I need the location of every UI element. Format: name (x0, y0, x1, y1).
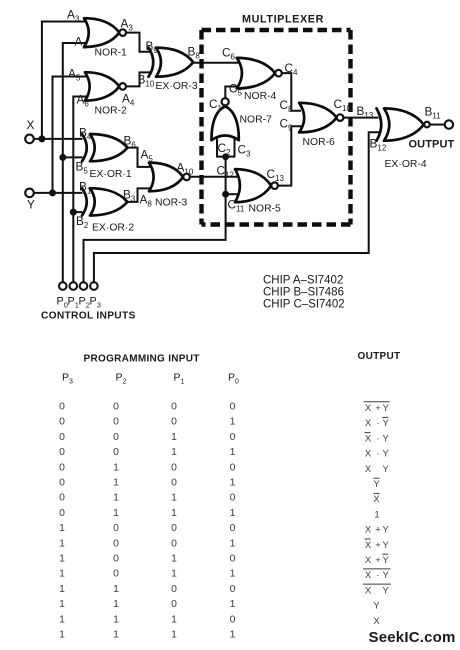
svg-text:P1: P1 (68, 296, 79, 310)
svg-text:OUTPUT: OUTPUT (358, 351, 401, 362)
svg-text:0 1 0 0: 0 1 0 0 (59, 462, 235, 473)
wire Y input line to EX-OR-2 B1 (34, 192, 83, 194)
svg-text:1 1 0 1: 1 1 0 1 (59, 599, 235, 610)
bubble NOR-3 output A10 (183, 174, 190, 181)
bubble NOR-5 output C13 (271, 182, 278, 189)
wire EX-OR-1 output B6 to NOR-3 input A5 (128, 148, 152, 167)
gate EX-OR-3 body (156, 48, 193, 77)
svg-text:C13: C13 (267, 167, 285, 183)
svg-text:1 0 1 0: 1 0 1 0 (59, 554, 235, 565)
wire X to NOR-1 input A3 (vertical riser and top run) (42, 22, 86, 139)
terminal P0 (59, 282, 67, 290)
svg-text:0 0 1 1: 0 0 1 1 (59, 447, 235, 458)
svg-text:1 0 0 1: 1 0 0 1 (59, 538, 235, 549)
svg-text:1 0 0 0: 1 0 0 0 (59, 523, 235, 534)
svg-text:0 0 0 1: 0 0 0 1 (59, 417, 235, 428)
svg-text:B13: B13 (357, 104, 374, 120)
svg-text:C2: C2 (218, 141, 232, 157)
svg-text:A5: A5 (68, 67, 81, 83)
wire EX-OR-4 output to terminal B11 (430, 124, 445, 126)
svg-text:B10: B10 (138, 73, 155, 89)
gate EX-OR-2 input arc (82, 188, 87, 215)
svg-text:X+Y: X+Y (365, 540, 390, 551)
svg-text:NOR-2: NOR-2 (95, 106, 128, 117)
svg-text:B3: B3 (123, 188, 136, 204)
svg-text:X: X (373, 494, 380, 505)
terminal X input (25, 135, 34, 144)
svg-text:CHIP A–SI7402: CHIP A–SI7402 (263, 275, 343, 287)
svg-text:EX·OR-4: EX·OR-4 (385, 159, 427, 170)
wire P3 run to EX-OR-4 input B12 (94, 132, 379, 282)
gate NOR-4 (237, 58, 275, 89)
svg-text:CONTROL INPUTS: CONTROL INPUTS (41, 311, 136, 322)
gate NOR-5 (235, 169, 271, 202)
wire NOR-6 output C10 to EX-OR-4 input B13 (343, 117, 378, 119)
svg-text:P1: P1 (174, 372, 185, 386)
svg-text:C10: C10 (334, 97, 352, 113)
svg-text:A10: A10 (177, 161, 194, 177)
gate NOR-1 (84, 18, 119, 47)
svg-text:1 0 1 1: 1 0 1 1 (59, 569, 235, 580)
node junction C2 C3 tie (222, 153, 229, 160)
node junction C11 / P2 riser (222, 191, 229, 198)
svg-text:Y: Y (27, 198, 35, 212)
svg-text:NOR-5: NOR-5 (249, 204, 282, 215)
wire NOR-2 output A4 to EX-OR-3 input B10 (126, 72, 151, 86)
svg-text:A5: A5 (141, 148, 154, 164)
wire NOR-1 output A3 to EX-OR-3 input B9 (126, 33, 151, 52)
svg-text:P3: P3 (62, 372, 73, 386)
svg-text:A3: A3 (67, 8, 80, 24)
svg-text:C6: C6 (222, 46, 236, 62)
svg-text:P3: P3 (90, 296, 101, 310)
svg-text:Y: Y (373, 601, 380, 612)
node junction Y / A5 riser (49, 189, 56, 196)
svg-text:X: X (373, 616, 380, 627)
svg-text:X: X (27, 118, 35, 132)
svg-text:1 1 1 0: 1 1 1 0 (59, 614, 235, 625)
svg-text:EX·OR-3: EX·OR-3 (156, 81, 198, 92)
wire NOR-4 output C4 to NOR-6 input C8 (282, 73, 301, 111)
svg-text:B2: B2 (76, 214, 89, 230)
terminal P1 (70, 282, 78, 290)
svg-text:B8: B8 (188, 45, 201, 61)
multiplexer dashed box (202, 28, 351, 32)
svg-text:0 1 1 0: 0 1 1 0 (59, 493, 235, 504)
svg-text:0 0 1 0: 0 0 1 0 (59, 432, 235, 443)
bubble NOR-2 output A4 (119, 83, 126, 90)
wire NOR-7 output C1 up to NOR-4 input C5 (225, 87, 239, 99)
svg-text:Y: Y (373, 479, 380, 490)
svg-text:X+Y: X+Y (365, 555, 390, 566)
svg-text:X·Y: X·Y (365, 418, 390, 429)
bubble NOR-6 output C10 (337, 114, 344, 121)
node junction X / A3 riser (38, 135, 45, 142)
svg-text:P2: P2 (116, 372, 127, 386)
wire P1 vertical to A6 and B2 (73, 97, 88, 283)
wire B5 stub into EX-OR-1 (63, 156, 83, 158)
svg-text:A3: A3 (121, 17, 134, 33)
svg-text:CHIP B–SI7486: CHIP B–SI7486 (263, 287, 344, 299)
node junction P0 / B5 (59, 154, 66, 161)
svg-text:C9: C9 (280, 117, 294, 133)
svg-text:B6: B6 (124, 134, 137, 150)
svg-text:NOR-7: NOR-7 (240, 115, 273, 126)
svg-text:A8: A8 (140, 193, 153, 209)
terminal output B11 (445, 120, 453, 128)
svg-text:1: 1 (374, 509, 379, 520)
bubble EX-OR-4 output (424, 122, 430, 128)
wire P0 vertical to A2 and B5 (63, 43, 87, 282)
svg-text:P0: P0 (57, 296, 68, 310)
svg-text:0 1 1 1: 0 1 1 1 (59, 508, 235, 519)
wire NOR-3 output A10 to NOR-5 input C12 (190, 176, 237, 178)
gate NOR-7 (vertical, output up) (211, 106, 238, 140)
svg-text:XY: XY (365, 464, 390, 475)
wire EX-OR-3 output B8 to NOR-4 input C6 (193, 62, 239, 64)
gate EX-OR-1 body (90, 134, 128, 161)
gate EX-OR-4 input arc (377, 108, 382, 140)
gate EX-OR-2 body (90, 188, 127, 215)
svg-text:X·Y: X·Y (365, 449, 390, 460)
svg-text:PROGRAMMING INPUT: PROGRAMMING INPUT (84, 354, 200, 365)
gate NOR-6 (299, 103, 337, 133)
wire C11 stub into NOR-5 (226, 193, 238, 195)
gate EX-OR-3 input arc (149, 48, 154, 77)
wire NOR-5 output C13 to NOR-6 input C9 (278, 126, 301, 185)
wire P2 run to NOR-5 input C11 and NOR-7 inputs C2 C3 (84, 157, 226, 282)
terminal P3 (90, 282, 98, 290)
svg-text:CHIP C–SI7402: CHIP C–SI7402 (263, 299, 345, 311)
gate NOR-3 (149, 163, 183, 192)
svg-text:NOR-3: NOR-3 (155, 198, 188, 209)
svg-text:XY: XY (365, 585, 390, 596)
svg-text:EX·OR·1: EX·OR·1 (90, 169, 132, 180)
svg-text:P2: P2 (79, 296, 90, 310)
svg-text:NOR-1: NOR-1 (95, 48, 128, 59)
wire EX-OR-2 output B3 to NOR-3 input A8 (127, 188, 151, 201)
svg-text:X+Y: X+Y (365, 525, 390, 536)
bubble NOR-7 output C1 (222, 98, 229, 105)
svg-text:A2: A2 (75, 35, 88, 51)
svg-text:C4: C4 (285, 61, 299, 77)
node junction P1 / B2 (70, 209, 77, 216)
svg-text:SeekIC.com: SeekIC.com (369, 629, 456, 646)
svg-text:X·Y: X·Y (365, 570, 390, 581)
svg-text:OUTPUT: OUTPUT (409, 139, 455, 151)
svg-text:B5: B5 (76, 160, 89, 176)
svg-text:X·Y: X·Y (365, 433, 390, 444)
svg-text:0 1 0 1: 0 1 0 1 (59, 478, 235, 489)
svg-text:B9: B9 (146, 39, 159, 55)
wire NOR-7 input bracket C2 C3 (216, 139, 218, 157)
svg-text:B1: B1 (79, 180, 92, 196)
svg-text:EX·OR·2: EX·OR·2 (92, 223, 134, 234)
svg-text:1 1 1 1: 1 1 1 1 (59, 630, 235, 641)
svg-text:P0: P0 (228, 372, 239, 386)
svg-text:1 1 0 0: 1 1 0 0 (59, 584, 235, 595)
wire B2 stub into EX-OR-2 (73, 211, 82, 213)
svg-text:NOR-6: NOR-6 (303, 137, 336, 148)
svg-text:X+Y: X+Y (365, 403, 390, 414)
svg-text:B11: B11 (425, 105, 442, 121)
terminal Y input (25, 189, 34, 198)
svg-text:B4: B4 (79, 126, 92, 142)
gate EX-OR-1 input arc (82, 134, 87, 161)
gate EX-OR-4 body (384, 108, 424, 140)
svg-text:NOR-4: NOR-4 (244, 91, 277, 102)
wire X input line to EX-OR-1 B4 (34, 138, 83, 140)
svg-text:0 0 0 0: 0 0 0 0 (59, 402, 235, 413)
svg-text:C3: C3 (238, 143, 252, 159)
bubble NOR-1 output A3 (119, 29, 126, 36)
gate NOR-2 (85, 72, 119, 100)
terminal P2 (80, 282, 88, 290)
bubble NOR-4 output C4 (275, 70, 282, 77)
svg-text:C1: C1 (209, 97, 223, 113)
svg-text:MULTIPLEXER: MULTIPLEXER (242, 14, 324, 26)
wire Y to NOR-2 input A5 (vertical riser) (53, 77, 88, 193)
